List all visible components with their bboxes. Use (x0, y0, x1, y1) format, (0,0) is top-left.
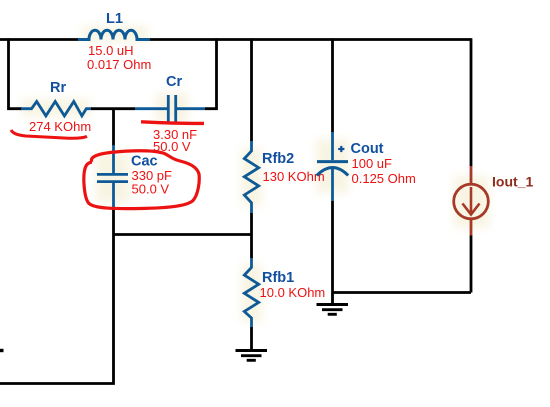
Cout polarity plus sign (338, 146, 344, 152)
svg-text:10.0 KOhm: 10.0 KOhm (260, 285, 326, 300)
ground under Cout (317, 305, 349, 315)
wire node Rr/Cac junction down (112, 109, 115, 146)
wire top bus right segment (150, 38, 471, 41)
svg-text:130 KOhm: 130 KOhm (263, 169, 325, 184)
capacitor Cac (97, 145, 128, 208)
component halo Cac (96, 153, 130, 203)
wire Rr right to Cr left (91, 107, 135, 110)
capacitor Cr (135, 95, 205, 122)
component halo Iout_1 (454, 176, 489, 228)
wire Cout bottom to ground (331, 201, 334, 304)
resistor Rfb1 (244, 258, 258, 327)
svg-text:Iout_1: Iout_1 (492, 174, 533, 190)
capacitor Cout (317, 132, 348, 201)
component halo L1 (82, 26, 148, 42)
svg-text:Cout: Cout (351, 141, 384, 157)
current source Iout_1 (454, 166, 489, 236)
ground under Rfb1 (236, 351, 268, 361)
annotation circle around Cac (84, 151, 199, 209)
component halo Rfb1 (241, 264, 262, 322)
component halo Cout (316, 139, 349, 193)
resistor Rr (21, 102, 91, 116)
wire Rfb2 bottom to Rfb1 top (250, 213, 253, 258)
svg-text:15.0 uH: 15.0 uH (88, 43, 134, 58)
wire top bus down to Cout (331, 38, 334, 132)
wire top bus down to Rfb2 (250, 38, 253, 141)
wire Cac bottom down to bottom-left corner (0, 208, 114, 384)
wire Cr right to corner and up to top bus (205, 38, 217, 109)
svg-text:50.0 V: 50.0 V (132, 182, 170, 197)
svg-text:Rr: Rr (50, 80, 66, 96)
component halo Rfb2 (241, 148, 262, 206)
wire stub at left edge (0, 349, 4, 352)
svg-text:274 KOhm: 274 KOhm (29, 119, 91, 134)
annotation underline under 274 KOhm (11, 130, 87, 138)
wire Rfb1 bottom to ground (250, 327, 253, 350)
resistor Rfb2 (244, 141, 258, 213)
svg-text:L1: L1 (106, 11, 123, 27)
wire top bus right corner down to Iout_1 (470, 38, 473, 166)
inductor L1 (78, 30, 150, 39)
wire feedback node horizontal (114, 233, 252, 236)
svg-text:Rfb2: Rfb2 (262, 151, 294, 167)
component halo Rr (22, 99, 90, 117)
wire output bottom horizontal (333, 291, 472, 294)
svg-text:100 uF: 100 uF (352, 156, 393, 171)
wire Iout_1 bottom to corner (470, 235, 473, 293)
svg-text:Rfb1: Rfb1 (262, 270, 294, 286)
svg-text:0.017 Ohm: 0.017 Ohm (87, 57, 151, 72)
wire left vertical drop (9, 38, 23, 109)
svg-text:0.125 Ohm: 0.125 Ohm (352, 171, 416, 186)
svg-text:Cr: Cr (166, 74, 182, 90)
component halo Cr (156, 93, 188, 123)
wire top bus left segment (0, 38, 78, 41)
annotation underline under Cr (141, 122, 204, 124)
